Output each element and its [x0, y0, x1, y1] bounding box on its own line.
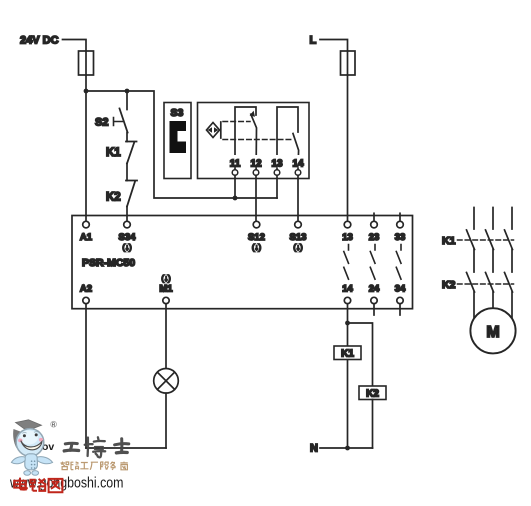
- neutral label N: [310, 443, 318, 455]
- internal relay contact 33-34: [396, 245, 401, 280]
- pin label 13: [342, 232, 353, 243]
- wire junction to sensor contacts feed: [86, 91, 277, 198]
- contactor K1 main contacts: [467, 230, 513, 250]
- svg-text:S2: S2: [95, 117, 108, 129]
- pin label 11: [228, 155, 242, 170]
- pin label 12: [249, 155, 263, 170]
- terminal S13 circle: [295, 221, 302, 228]
- dashed actuation line to contact 11-12: [223, 121, 250, 123]
- enclosure box S3: [164, 103, 191, 179]
- wire 24V DC lead: [63, 40, 87, 92]
- logo robot mascot body: [11, 454, 52, 475]
- pin label A1: [80, 232, 93, 243]
- logo robot mascot face: [18, 432, 43, 450]
- terminal A1 circle: [83, 221, 90, 228]
- node under terminal 11: [233, 196, 238, 201]
- pin label S13: [290, 232, 307, 252]
- wire S2 to K1 contact: [126, 133, 128, 142]
- wire bottom rail A2 to lamp: [86, 447, 166, 449]
- watermark slogan text (orange): [61, 462, 128, 470]
- wire sensor 14 to terminal S13: [297, 175, 299, 221]
- wire branch to K2 coil: [348, 323, 373, 386]
- node K2 branch tap: [345, 321, 350, 326]
- wire M1 to lamp: [165, 304, 167, 369]
- svg-text:A1: A1: [80, 232, 93, 243]
- wire sensor 13 to node: [276, 175, 278, 198]
- terminal S12 circle: [253, 221, 260, 228]
- label S3: [171, 107, 184, 119]
- stub below terminal 24: [373, 304, 375, 315]
- wire junction to terminal A1: [85, 91, 87, 221]
- label K2 main contact: [442, 279, 456, 291]
- terminal 33 circle: [397, 221, 404, 228]
- switch S2 emergency stop NC contact: [114, 109, 128, 133]
- pin label M1: [159, 274, 173, 295]
- stub above terminal 33: [399, 213, 401, 221]
- svg-text:K1: K1: [106, 147, 121, 159]
- svg-text:PSR-MC50: PSR-MC50: [82, 257, 135, 269]
- optical sensor symbol: [207, 122, 221, 138]
- svg-text:S3: S3: [171, 107, 184, 119]
- svg-text:S12: S12: [248, 232, 265, 243]
- svg-text:K2: K2: [106, 192, 121, 204]
- watermark url text www.gongboshi.com: [9, 475, 123, 492]
- wire neutral rail: [320, 447, 373, 449]
- pin label 33: [395, 232, 406, 243]
- pin label S12: [248, 232, 265, 252]
- svg-text:K2: K2: [366, 389, 379, 400]
- svg-text:12: 12: [250, 159, 262, 170]
- label S2: [95, 117, 108, 129]
- svg-text:M1: M1: [159, 284, 173, 295]
- wire K2 to terminal S34: [126, 207, 128, 222]
- sensor contact 11-12: [235, 107, 257, 170]
- internal relay contact 13-14: [344, 245, 349, 280]
- terminal 13 circle: [344, 221, 351, 228]
- relay contact K2 (NC aux): [126, 181, 137, 207]
- label K1 main contact: [442, 235, 456, 247]
- watermark text dianlutu (电路图 red): [14, 478, 62, 493]
- pin label 13 (sensor): [270, 155, 284, 170]
- terminal 24 circle: [371, 297, 377, 303]
- terminal 12 circle: [253, 170, 259, 176]
- pin label 14 (sensor): [291, 155, 305, 170]
- svg-text:14: 14: [292, 159, 304, 170]
- svg-text:23: 23: [369, 232, 380, 243]
- wire K1 to K2 contact: [126, 164, 128, 181]
- node junction below fuse F1: [84, 89, 89, 94]
- indicator lamp H1: [154, 369, 179, 394]
- wire lamp to bottom rail: [165, 393, 167, 448]
- watermark logo of gongboshi: [9, 420, 129, 492]
- contactor coil K1: [334, 346, 361, 360]
- svg-text:33: 33: [395, 232, 406, 243]
- svg-text:(↓): (↓): [122, 243, 132, 252]
- svg-text:A2: A2: [80, 284, 92, 295]
- svg-text:13: 13: [271, 159, 283, 170]
- svg-text:11: 11: [230, 159, 241, 170]
- terminal M1 circle: [163, 297, 169, 303]
- terminal 14 circle (sensor): [295, 170, 301, 176]
- contactor coil K2: [359, 386, 386, 400]
- wire terminal 14 down through K1 coil: [347, 304, 349, 448]
- reset button icon S3: [170, 121, 187, 153]
- wire phases to motor: [474, 292, 512, 320]
- fuse F2 (L branch): [341, 51, 356, 75]
- terminal 34 circle: [397, 297, 403, 303]
- watermark character shi (士): [115, 439, 129, 453]
- motor M: [470, 308, 515, 353]
- pin label 24: [369, 284, 380, 295]
- terminal 14 circle: [344, 297, 350, 303]
- terminal 13 circle (sensor): [274, 170, 280, 176]
- svg-text:14: 14: [342, 284, 353, 295]
- pin label 23: [369, 232, 380, 243]
- watermark character gong (工): [64, 443, 78, 451]
- wire K2 coil to bottom rail: [372, 400, 374, 449]
- wire L lead: [320, 40, 348, 222]
- wire sensor 12 to terminal S12: [255, 175, 257, 221]
- svg-text:(↓): (↓): [293, 243, 303, 252]
- supply label 24V DC: [20, 35, 59, 47]
- node S2 branch tap: [125, 89, 130, 94]
- label K2 aux contact: [106, 192, 121, 204]
- svg-text:24V DC: 24V DC: [20, 35, 59, 47]
- device label PSR-MC50: [82, 257, 135, 269]
- terminal S34 circle: [124, 221, 131, 228]
- node N junction: [345, 446, 350, 451]
- dashed actuation line to contact 13-14: [223, 139, 292, 141]
- svg-text:(↓): (↓): [252, 243, 262, 252]
- svg-text:R: R: [52, 422, 56, 428]
- logo robot mascot cap: [13, 420, 41, 448]
- label K1 aux contact: [106, 147, 121, 159]
- stub below terminal 34: [399, 304, 401, 315]
- enclosure box light curtain sensor: [198, 103, 310, 179]
- wire sensor 11 to node: [234, 175, 236, 198]
- stub above terminal 23: [373, 213, 375, 221]
- contactor K2 main contacts: [467, 273, 513, 293]
- svg-text:13: 13: [342, 232, 353, 243]
- svg-text:K1: K1: [341, 349, 354, 360]
- logo registered mark: [51, 421, 57, 428]
- sensor contact 13-14: [277, 107, 299, 170]
- terminal 11 circle: [232, 170, 238, 176]
- safety relay PSR-MC50 enclosure: [72, 216, 413, 309]
- pin label 14: [342, 284, 353, 295]
- dashed linkage K1: [458, 239, 514, 241]
- terminal 23 circle: [371, 221, 378, 228]
- supply label L: [310, 35, 317, 47]
- pin label S34: [119, 232, 137, 252]
- svg-text:S13: S13: [290, 232, 307, 243]
- svg-text:N: N: [310, 443, 318, 455]
- svg-text:K2: K2: [442, 279, 456, 291]
- wire branch to S2: [126, 91, 128, 110]
- relay contact K1 (NC aux): [126, 142, 137, 164]
- internal relay contact 23-24: [370, 245, 375, 280]
- svg-text:24: 24: [369, 284, 380, 295]
- fuse F1 (24V DC branch): [79, 51, 94, 75]
- logo robot mascot head: [16, 429, 44, 457]
- svg-text:34: 34: [395, 284, 406, 295]
- wire A2 to bottom rail: [85, 304, 87, 448]
- pin label 34: [395, 284, 406, 295]
- dashed linkage K2: [458, 283, 514, 285]
- svg-text:S34: S34: [119, 232, 137, 243]
- three phase supply lines: [474, 208, 512, 230]
- terminal A2 circle: [83, 297, 89, 303]
- svg-text:M: M: [486, 324, 499, 341]
- svg-text:(↓): (↓): [161, 274, 171, 283]
- svg-text:K1: K1: [442, 235, 456, 247]
- wire phase mid segments: [474, 250, 512, 273]
- watermark character bo (博): [85, 437, 106, 457]
- watermark fragment text ov: [42, 441, 54, 453]
- svg-text:L: L: [310, 35, 317, 47]
- pin label A2: [80, 284, 92, 295]
